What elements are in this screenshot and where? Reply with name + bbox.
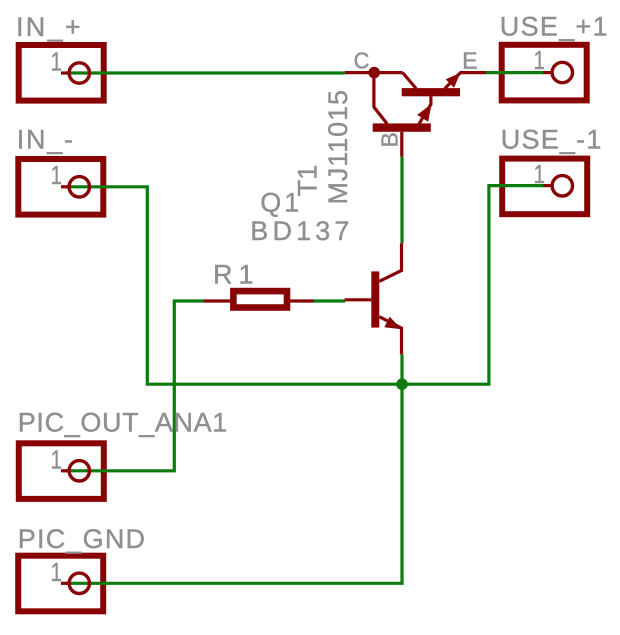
svg-text:USE_+1: USE_+1 — [500, 12, 609, 42]
transistor Q1 emitter arrow — [384, 317, 401, 330]
connector box IN- — [18, 159, 103, 215]
transistor T1 upper base bar — [402, 88, 460, 96]
transistor T1 emitter diagonal — [445, 73, 460, 89]
svg-text:USE_-1: USE_-1 — [501, 125, 603, 155]
resistor R1 body — [233, 291, 287, 307]
wire Q1 emitter to junction — [400, 354, 403, 384]
transistor Q1 collector — [379, 243, 401, 281]
pin circle IN- pin 1 — [69, 177, 89, 197]
junction dot (green) — [396, 378, 408, 390]
svg-text:MJ11015: MJ11015 — [323, 89, 353, 204]
svg-text:IN_+: IN_+ — [16, 12, 83, 42]
pin circle USE+1 pin 1 — [552, 62, 572, 82]
wire T1 base to Q1 collector — [400, 157, 403, 244]
wire IN- / USE-1 net — [66, 186, 543, 385]
wire IN+ net (IN+ pin to T1 collector pin) — [66, 71, 345, 74]
svg-text:B: B — [377, 132, 403, 147]
connector box PIC OUT_ANA1 — [19, 443, 104, 499]
resistor R1 leads — [204, 299, 232, 302]
wire PIC GND net — [66, 384, 402, 583]
transistor T1 lower base bar — [373, 123, 431, 131]
svg-text:IN_-: IN_- — [17, 125, 75, 155]
transistor T1 upper collector diagonal — [403, 73, 417, 89]
transistor T1 inner emitter arrow — [417, 104, 431, 122]
svg-text:1: 1 — [51, 557, 63, 587]
transistor T1 inner emitter (driver) — [419, 96, 431, 124]
transistor Q1 base lead — [345, 298, 372, 301]
pin circle PIC GND pin 1 — [69, 573, 89, 593]
connector box PIC GND — [18, 556, 103, 612]
svg-text:R1: R1 — [213, 260, 260, 290]
svg-text:BD137: BD137 — [250, 216, 353, 246]
pin stub PIC GND — [61, 582, 68, 585]
pin circle PIC OUT_ANA1 pin 1 — [69, 461, 89, 481]
svg-text:C: C — [354, 48, 370, 74]
svg-text:E: E — [462, 48, 478, 74]
connector box USE-1 — [502, 159, 587, 215]
wire R1 to Q1 base — [314, 299, 345, 302]
svg-text:T1: T1 — [293, 165, 323, 197]
connector box IN+ — [19, 45, 104, 101]
pin circle USE-1 pin 1 — [552, 176, 572, 196]
pin circle IN+ pin 1 — [69, 63, 89, 83]
wire PIC OUT_ANA1 net to R1 — [66, 301, 204, 471]
svg-text:1: 1 — [534, 159, 546, 189]
svg-text:1: 1 — [51, 160, 63, 190]
pin stub IN- — [61, 185, 68, 188]
pin stub PIC OUT_ANA1 — [61, 469, 68, 472]
transistor Q1 emitter — [379, 317, 401, 355]
svg-text:1: 1 — [51, 47, 63, 77]
svg-text:1: 1 — [534, 45, 546, 75]
svg-text:1: 1 — [51, 445, 63, 475]
pin stub IN+ — [61, 71, 68, 74]
transistor T1 emitter arrow — [446, 73, 461, 88]
wire USE+1 net (T1 emitter pin to USE+1 pin) — [486, 71, 543, 74]
svg-text:PIC_OUT_ANA1: PIC_OUT_ANA1 — [18, 408, 228, 438]
transistor T1 inner collector wires — [374, 73, 387, 124]
transistor T1 collector junction dot — [368, 67, 380, 79]
transistor T1 emitter lead — [460, 71, 487, 74]
transistor Q1 base bar — [371, 271, 379, 327]
pin stub USE-1 — [543, 184, 551, 187]
svg-text:PIC_GND: PIC_GND — [18, 524, 146, 554]
transistor T1 collector lead — [345, 71, 403, 74]
transistor T1 base pin stub — [400, 132, 403, 157]
connector box USE+1 — [502, 45, 587, 101]
pin stub USE+1 — [543, 71, 551, 74]
